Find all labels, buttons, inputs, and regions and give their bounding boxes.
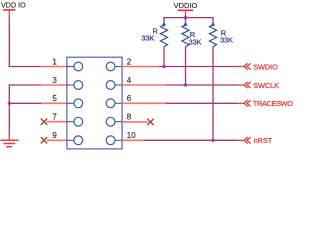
junction R2/SWCLK — [184, 83, 187, 86]
svg-text:1: 1 — [52, 57, 57, 66]
svg-text:2: 2 — [127, 57, 132, 66]
junction VDDIO rail — [184, 16, 187, 19]
wire pin 8 stub — [122, 121, 148, 123]
wire pin 6 TRACESWO — [122, 102, 244, 104]
resistor R3 value 33K — [220, 35, 233, 44]
no-connect X pin 8 — [147, 119, 153, 125]
wire pin 2 SWDIO — [122, 66, 244, 68]
resistor R2 ref label — [190, 30, 196, 39]
no-connect X pin 9 — [41, 137, 47, 143]
svg-text:7: 7 — [52, 113, 57, 122]
svg-text:VDD IO: VDD IO — [1, 0, 26, 9]
svg-text:VDDIO: VDDIO — [174, 1, 198, 10]
wire R1 bottom lead — [163, 47, 165, 67]
pin 9 label — [52, 131, 57, 140]
wire pin 9 stub — [47, 139, 68, 141]
wire GND vertical — [8, 84, 10, 140]
connector pin circles left column — [67, 62, 83, 145]
resistor R1 — [160, 23, 167, 46]
svg-text:33K: 33K — [141, 34, 154, 43]
power symbol VDDIO top — [178, 10, 194, 17]
wire pin 1 horizontal — [9, 66, 67, 68]
wire R3 top lead — [212, 17, 214, 25]
pin 10 label — [127, 131, 136, 140]
pin 4 label — [127, 76, 132, 85]
pin 1 label — [52, 57, 57, 66]
svg-text:33K: 33K — [220, 35, 233, 44]
svg-text:SWCLK: SWCLK — [253, 81, 279, 90]
svg-text:8: 8 — [127, 113, 132, 122]
resistor R2 — [182, 23, 189, 46]
junction R3/nRST — [211, 139, 214, 142]
pin 3 label — [52, 76, 57, 85]
connector J1 body — [67, 57, 122, 149]
junction R1/SWDIO — [162, 65, 165, 68]
wire pin 10 nRST — [122, 139, 244, 141]
wire pin 4 SWCLK — [122, 84, 244, 86]
svg-text:9: 9 — [52, 131, 57, 140]
wire VDDIO vertical to pin 1 — [8, 19, 10, 68]
power symbol VDDIO left — [3, 10, 15, 19]
wire pin 7 stub — [47, 121, 68, 123]
pin 2 label — [127, 57, 132, 66]
pin 5 label — [52, 94, 57, 103]
no-connect X pin 7 — [41, 119, 47, 125]
ground — [0, 140, 18, 146]
net label VDDIO top — [174, 1, 198, 10]
svg-text:5: 5 — [52, 94, 57, 103]
svg-text:33K: 33K — [189, 38, 202, 47]
port SWCLK — [244, 81, 279, 90]
resistor R1 value 33K — [141, 34, 154, 43]
port nRST — [244, 136, 273, 145]
pin 8 label — [127, 113, 132, 122]
svg-text:4: 4 — [127, 76, 132, 85]
resistor R1 ref label — [153, 26, 159, 35]
svg-text:10: 10 — [127, 131, 136, 140]
junction pin5/GND — [8, 102, 11, 105]
svg-text:3: 3 — [52, 76, 57, 85]
net label VDD IO — [1, 0, 26, 9]
svg-text:TRACESWO: TRACESWO — [253, 99, 294, 108]
resistor R3 ref label — [221, 28, 227, 37]
wire resistor top rail — [164, 17, 213, 19]
wire pin 5 horizontal to GND rail — [9, 102, 67, 104]
resistor R3 — [209, 23, 216, 46]
wire R2 bottom lead — [185, 47, 187, 85]
connector pin circles right column — [106, 62, 122, 145]
resistor R2 value 33K — [189, 38, 202, 47]
pin 7 label — [52, 113, 57, 122]
svg-text:SWDIO: SWDIO — [253, 62, 278, 71]
pin 6 label — [127, 94, 132, 103]
wire R2 top lead — [185, 18, 187, 25]
svg-text:nRST: nRST — [254, 136, 273, 145]
wire pin 3 horizontal to GND rail — [9, 84, 67, 86]
svg-text:6: 6 — [127, 94, 132, 103]
wire R3 bottom lead — [212, 47, 214, 141]
port TRACESWO — [244, 99, 293, 108]
port SWDIO — [244, 62, 278, 71]
wire R1 top lead — [163, 17, 165, 25]
